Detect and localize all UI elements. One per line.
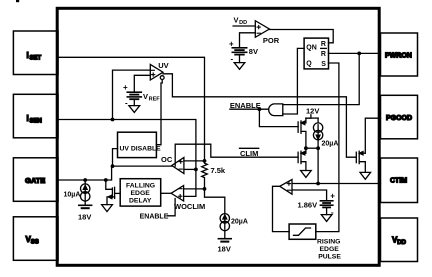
transistor Q2 enable FET xyxy=(298,118,306,148)
svg-text:12V: 12V xyxy=(306,107,319,116)
svg-text:DD: DD xyxy=(239,20,247,26)
wire GATE pin rail xyxy=(58,166,112,180)
svg-text:PWRON: PWRON xyxy=(385,52,412,59)
svg-text:RISING: RISING xyxy=(317,238,340,245)
wire PWRON node to AND gate top input xyxy=(283,53,359,104)
wire OC- input to ISEN rail xyxy=(184,168,196,170)
label VDD internal xyxy=(234,15,248,26)
wire ISEN rail xyxy=(58,120,196,197)
svg-text:20µA: 20µA xyxy=(322,141,339,148)
wire UV bubble to UV DISABLE block xyxy=(156,80,162,145)
pin box ISET xyxy=(13,31,58,75)
svg-text:R: R xyxy=(321,41,326,48)
wire 7.5k bottom to 20uA bias xyxy=(205,189,225,214)
svg-text:DD: DD xyxy=(397,240,406,246)
svg-text:I: I xyxy=(27,51,29,60)
resistor 7.5k xyxy=(202,161,208,189)
battery 18V under 10uA xyxy=(79,201,92,208)
svg-text:+: + xyxy=(123,83,128,92)
svg-text:10µA: 10µA xyxy=(64,192,81,199)
latch U2 SR xyxy=(304,38,328,69)
svg-text:V: V xyxy=(234,15,239,24)
svg-text:PULSE: PULSE xyxy=(318,253,341,260)
svg-text:CTIM: CTIM xyxy=(390,177,407,184)
svg-text:DELAY: DELAY xyxy=(129,197,152,204)
wire ENABLE to WOCLIM enable pin xyxy=(168,199,176,216)
svg-text:8V: 8V xyxy=(249,47,258,56)
wire PGOOD to Q4 drain xyxy=(365,118,380,153)
wire OC+ input to 7.5k top xyxy=(184,160,205,162)
wire OC output up-and-over to CLIM line xyxy=(175,144,298,166)
svg-text:UV: UV xyxy=(158,61,168,70)
svg-text:SET: SET xyxy=(30,56,42,62)
wire POR output to latch R xyxy=(269,30,333,43)
wire latch S down to pulse block xyxy=(316,63,339,232)
main IC boundary box xyxy=(57,8,379,265)
block FALLING EDGE DELAY xyxy=(120,179,161,206)
node source-right dot xyxy=(316,146,320,150)
ground below 8V xyxy=(234,55,245,70)
op-amp WOCLIM comparator xyxy=(171,186,184,202)
stray caption remnant top-left xyxy=(16,0,19,2)
pin label ISEN xyxy=(27,114,42,125)
svg-text:EDGE: EDGE xyxy=(320,246,340,253)
svg-text:OC: OC xyxy=(161,155,173,164)
pin box VDD xyxy=(381,218,418,262)
node 7.5k top dot xyxy=(203,159,207,163)
svg-text:GATE: GATE xyxy=(25,176,45,185)
transistor Q4 PGOOD FET xyxy=(356,151,365,172)
wire 7.5k bottom to WOCLIM- xyxy=(184,188,205,190)
current source 10uA xyxy=(81,180,90,201)
transistor Q3 CLIM FET xyxy=(298,148,306,170)
svg-text:7.5k: 7.5k xyxy=(211,166,226,175)
svg-text:V: V xyxy=(143,92,148,101)
svg-text:UV DISABLE: UV DISABLE xyxy=(120,145,162,152)
op-amp POR comparator xyxy=(255,21,269,38)
wire VDD to POR+ xyxy=(233,25,255,27)
label RISING EDGE PULSE xyxy=(317,238,341,260)
pin box ISEN xyxy=(13,94,58,138)
current source 20uA lower xyxy=(220,214,229,231)
ground below 1.86V xyxy=(321,207,332,221)
battery 18V under 20uA xyxy=(218,231,231,242)
svg-text:POR: POR xyxy=(263,36,280,45)
battery VREF xyxy=(123,83,141,107)
wire UV DISABLE left side down to gate node xyxy=(113,149,118,167)
pin label VSS xyxy=(26,235,39,246)
svg-text:18V: 18V xyxy=(78,213,91,222)
pin box GATE xyxy=(13,158,58,202)
svg-text:1.86V: 1.86V xyxy=(298,201,318,210)
pin label ISET xyxy=(27,51,42,62)
gate U3 AND (facing left) xyxy=(269,104,283,116)
node gate-drive dot xyxy=(111,164,115,168)
svg-text:20µA: 20µA xyxy=(231,218,248,225)
op-amp OC comparator xyxy=(172,158,184,174)
svg-text:R: R xyxy=(321,51,326,58)
svg-text:PGOOD: PGOOD xyxy=(386,115,412,122)
ground below Q4 xyxy=(360,172,371,179)
wire latch Rbar to PWRON xyxy=(329,52,381,54)
node GATE/10uA dot xyxy=(83,178,87,182)
svg-text:ENABLE: ENABLE xyxy=(140,214,169,221)
pin label VDD xyxy=(392,236,407,247)
wire ENABLE from AND output xyxy=(230,108,268,110)
svg-text:CLIM: CLIM xyxy=(240,149,258,158)
node ISEN junction dot xyxy=(111,118,115,122)
svg-text:+: + xyxy=(330,192,335,201)
wire UV noninverting input to VREF xyxy=(134,75,150,92)
wire comparator output to pulse block xyxy=(273,186,290,231)
node CTIM dot xyxy=(316,182,320,186)
node 7.5k bottom dot xyxy=(203,187,207,191)
pin box CTIM xyxy=(381,158,418,203)
svg-text:-: - xyxy=(125,98,128,107)
wire UV output to PGOOD-FET gate xyxy=(163,74,356,157)
svg-text:S: S xyxy=(321,61,326,68)
wire latch QN to AND gate bottom input xyxy=(283,48,304,114)
svg-text:EDGE: EDGE xyxy=(131,190,151,197)
wire OC output to gate node xyxy=(113,165,172,167)
wire UV inverting input from ISEN xyxy=(113,70,151,119)
ground below VREF xyxy=(129,99,140,112)
node GATE/FET dot xyxy=(104,178,108,182)
wire comparator- to 1.86V battery xyxy=(292,190,327,201)
svg-text:REF: REF xyxy=(149,97,161,103)
wire ISET rail xyxy=(58,57,205,161)
ground below Q3 xyxy=(301,171,312,178)
current source 20uA upper xyxy=(313,123,322,148)
svg-text:I: I xyxy=(27,114,29,123)
wire FET/source node xyxy=(306,147,318,149)
pin box PGOOD xyxy=(381,95,418,139)
svg-text:Q: Q xyxy=(306,61,312,68)
svg-text:+: + xyxy=(229,40,234,49)
label CLIM with overline xyxy=(240,148,259,158)
transistor Q1 gate pulldown xyxy=(106,180,115,205)
wire node down to CTIM line xyxy=(317,148,319,183)
pin box VSS xyxy=(13,217,58,260)
svg-text:SEN: SEN xyxy=(30,119,42,125)
svg-text:18V: 18V xyxy=(218,245,231,254)
wire ENABLE branch to 12V-FET gate xyxy=(259,109,298,126)
wire delay block input from pulldown FET xyxy=(115,192,120,194)
node ENABLE branch dot xyxy=(258,107,262,111)
node source-left dot xyxy=(304,146,308,150)
svg-text:FALLING: FALLING xyxy=(126,182,155,189)
svg-text:QN: QN xyxy=(306,44,317,51)
block UV DISABLE xyxy=(118,132,162,157)
op-amp 1.86V timer comparator xyxy=(280,180,292,195)
wire CTIM line xyxy=(292,183,381,185)
node ISEN/OC- dot xyxy=(194,168,198,172)
node PWRON dot xyxy=(357,52,361,56)
wire 12V feed xyxy=(306,115,311,118)
wire WOCLIM output to delay block xyxy=(161,192,171,194)
pin box PWRON xyxy=(381,33,418,76)
battery 1.86V xyxy=(320,192,335,217)
label VREF xyxy=(143,92,160,103)
svg-text:SS: SS xyxy=(31,240,39,246)
block RISING EDGE PULSE xyxy=(289,224,316,239)
svg-text:ENABLE: ENABLE xyxy=(230,101,261,110)
op-amp UV comparator xyxy=(150,64,164,80)
svg-text:WOCLIM: WOCLIM xyxy=(174,202,205,211)
battery 8V xyxy=(229,40,247,64)
ground below Q1 xyxy=(102,205,113,212)
wire POR- to 8V battery xyxy=(240,33,256,48)
